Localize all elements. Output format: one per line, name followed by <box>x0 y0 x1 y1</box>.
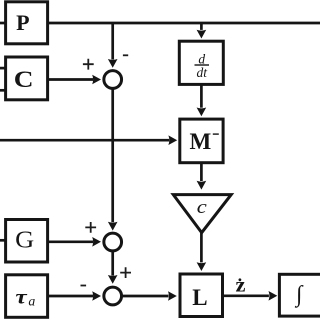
sum junction S1 <box>104 71 122 89</box>
arrowhead into S1 from C <box>92 75 101 85</box>
arrowhead into d/dt from top bus <box>197 30 207 39</box>
svg-text:L: L <box>192 285 207 310</box>
arrowhead into S3 from tau_a <box>92 291 101 301</box>
svg-text:M: M <box>190 129 212 154</box>
svg-text:G: G <box>15 228 34 254</box>
block L <box>180 274 223 317</box>
svg-text:C: C <box>14 67 34 93</box>
gain triangle c <box>173 195 231 233</box>
svg-text:d: d <box>198 51 205 66</box>
minus sign at S3 input from tau_a <box>81 285 87 287</box>
wire L to integrator <box>223 294 269 297</box>
svg-text:P: P <box>16 10 29 35</box>
arrowhead into M from feedback line <box>168 135 177 145</box>
block tau_a <box>6 275 48 318</box>
plus sign at S2 input from G <box>85 222 96 233</box>
arrowhead into S1 from top <box>108 59 118 68</box>
arrowhead into S3 from top <box>108 275 118 284</box>
wire C to sum junction S1 <box>47 78 93 81</box>
block G <box>6 220 48 263</box>
wire M to gain triangle <box>200 163 203 181</box>
svg-text:c: c <box>197 198 207 218</box>
wire feedback line from left edge into M <box>0 139 169 142</box>
wire top bus from P to right edge <box>47 22 320 25</box>
wire drop from top bus to sum junction S1 <box>111 23 114 60</box>
wire sum junction S3 to L <box>123 295 169 298</box>
arrowhead into M from d/dt <box>197 108 207 117</box>
wire sum junction S1 down to sum junction S2 <box>111 89 114 223</box>
svg-text:τ: τ <box>15 285 28 309</box>
wire sum junction S2 down to sum junction S3 <box>111 251 114 276</box>
block C <box>6 57 48 100</box>
arrowhead into gain triangle from M <box>197 181 207 190</box>
wire stub into C upper from left edge <box>0 67 6 70</box>
block integrator <box>279 274 320 316</box>
minus sign at S1 input from top <box>123 54 128 56</box>
arrowhead into L from gain triangle <box>197 262 207 271</box>
block P <box>6 2 48 44</box>
wire d/dt to M <box>200 85 203 108</box>
arrowhead into S2 from top <box>108 222 118 231</box>
wire stub into G from left edge <box>0 239 6 242</box>
svg-text:dt: dt <box>197 65 209 80</box>
arrowhead into integrator from L <box>269 291 278 301</box>
arrowhead into S2 from G <box>92 237 101 247</box>
wire drop from top bus to d/dt <box>200 23 203 30</box>
plus sign at S3 input from top <box>120 267 131 278</box>
arrowhead into L from S3 <box>168 291 177 301</box>
wire G to sum junction S2 <box>47 240 93 243</box>
sum junction S2 <box>104 233 122 251</box>
wire stub into C lower from left edge <box>0 89 6 92</box>
wire tau_a to sum junction S3 <box>47 295 93 298</box>
block d/dt <box>179 41 223 84</box>
block M <box>180 119 223 163</box>
sum junction S3 <box>104 287 122 305</box>
label superscript minus of M <box>213 133 219 134</box>
svg-text:z: z <box>235 274 245 297</box>
plus sign at S1 input from C <box>83 59 94 70</box>
wire gain triangle to L <box>200 233 203 262</box>
wire stub into P from left edge <box>0 22 6 25</box>
svg-text:a: a <box>28 293 35 308</box>
dot above z <box>239 278 242 281</box>
fraction bar of d/dt <box>195 64 210 65</box>
